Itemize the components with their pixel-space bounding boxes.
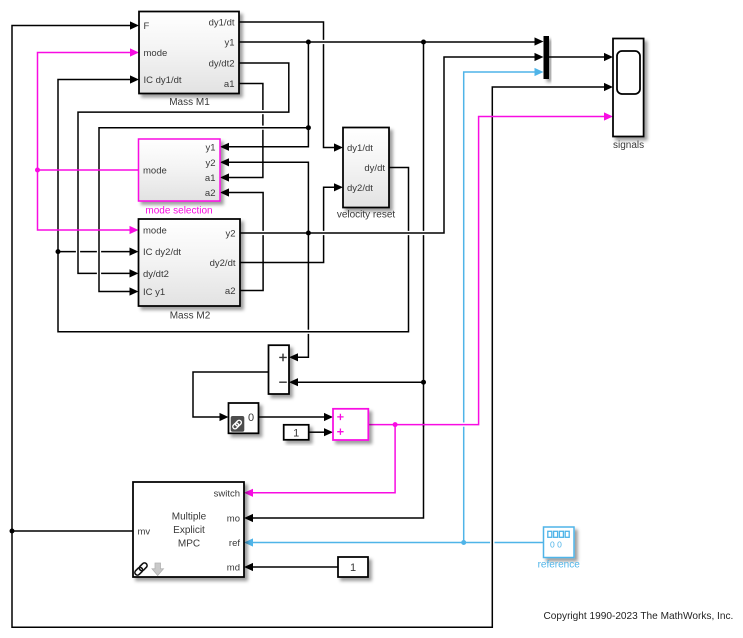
svg-text:mode selection: mode selection bbox=[145, 206, 212, 217]
svg-text:velocity reset: velocity reset bbox=[337, 210, 396, 221]
block Multiple Explicit MPC bbox=[133, 482, 244, 577]
svg-text:MPC: MPC bbox=[178, 539, 200, 550]
svg-text:ref: ref bbox=[229, 538, 240, 549]
arrow into MPC ref bbox=[244, 538, 253, 546]
svg-text:a1: a1 bbox=[224, 79, 235, 90]
svg-text:y2: y2 bbox=[225, 229, 235, 240]
arrow into velocity reset dy2/dt bbox=[334, 183, 343, 191]
wire magenta sum branch down to MPC switch bbox=[253, 425, 396, 493]
wire constant 1 output to MPC md bbox=[253, 566, 339, 568]
junction sum minus bbox=[421, 380, 426, 385]
arrow into M1 mode bbox=[130, 48, 139, 56]
arrow into mode selection a1 bbox=[220, 173, 229, 181]
wire sum minus branch bbox=[298, 381, 424, 383]
svg-text:y1: y1 bbox=[205, 142, 215, 153]
arrow into MPC mo bbox=[244, 514, 253, 522]
svg-text:mode: mode bbox=[144, 48, 168, 59]
arrow into mux in3 bbox=[535, 68, 544, 76]
arrow into scope in2 bbox=[604, 83, 613, 91]
arrow into scope in1 bbox=[604, 53, 613, 61]
wire y2 branch down to sum plus input bbox=[307, 233, 309, 330]
magenta wires bbox=[38, 53, 605, 493]
ARROWHEADS bbox=[130, 21, 614, 571]
source block reference bbox=[538, 527, 581, 571]
wire constant 1 output to magenta sum in2 bbox=[309, 431, 325, 433]
svg-text:mo: mo bbox=[227, 514, 240, 525]
wire y1 branch down right side to MPC mo and sum minus bbox=[423, 42, 425, 231]
wire mux output to scope in1 bbox=[549, 56, 605, 58]
svg-text:dy/dt2: dy/dt2 bbox=[143, 269, 169, 280]
mux bbox=[544, 36, 550, 79]
constant 1 (lower) bbox=[338, 557, 368, 577]
junction y2 bbox=[306, 231, 311, 236]
junction y1 at x423 bbox=[421, 40, 426, 45]
wire a1 of M1 to mode selection a1 input bbox=[239, 84, 263, 111]
arrow into M1 F bbox=[130, 21, 139, 29]
wire y2 of M2 to mux in2 bbox=[240, 57, 535, 233]
junction IC rail bbox=[56, 249, 61, 254]
arrow into velocity reset dy1/dt bbox=[334, 143, 343, 151]
subsystem Mass M2 bbox=[139, 219, 241, 322]
wire y1 of M1 to mux in1 bbox=[239, 41, 535, 43]
svg-text:F: F bbox=[144, 21, 150, 32]
junction y1 IC branch bbox=[306, 125, 311, 130]
wire mode rail down to M2 mode input bbox=[38, 170, 131, 230]
svg-text:dy2/dt: dy2/dt bbox=[210, 258, 236, 269]
wire reference output to MPC ref bbox=[495, 542, 544, 544]
arrow into sum minus bbox=[289, 378, 298, 386]
link block 0 (WrapToZero) bbox=[229, 403, 259, 433]
wire sum output to link block bbox=[193, 372, 269, 417]
arrow into M2 dy/dt2 bbox=[130, 269, 139, 277]
svg-text:dy/dt2: dy/dt2 bbox=[209, 59, 235, 70]
wire magenta sum output to scope in3 bbox=[368, 117, 604, 425]
arrow into sum plus bbox=[289, 353, 298, 361]
wire mv rail down, along bottom, up right side to scope in2 bbox=[12, 87, 605, 627]
wire IC rail branch to M2 IC dy2/dt bbox=[58, 251, 76, 253]
arrow into link block bbox=[220, 413, 229, 421]
wire mode rail up to M1 mode input bbox=[38, 53, 131, 171]
subsystem mode selection bbox=[139, 139, 221, 217]
arrow into M1 IC dy1/dt bbox=[130, 75, 139, 83]
wire dy2/dt of M2 to velocity reset dy2/dt bbox=[240, 235, 324, 262]
wire dy1/dt of M1 to velocity reset dy1/dt bbox=[239, 22, 324, 40]
wire reference branch up to mux in3 bbox=[463, 427, 465, 543]
light blue wires bbox=[253, 72, 544, 543]
arrow into M2 mode bbox=[130, 226, 139, 234]
svg-text:dy2/dt: dy2/dt bbox=[347, 183, 373, 194]
arrow into mux in2 bbox=[535, 53, 544, 61]
svg-text:1: 1 bbox=[293, 427, 299, 439]
subsystem velocity reset bbox=[337, 128, 396, 221]
magenta sum block bbox=[333, 409, 368, 440]
arrow into scope in3 bbox=[604, 112, 613, 120]
chain glyph on badge bbox=[232, 419, 242, 429]
svg-text:Multiple: Multiple bbox=[172, 512, 207, 523]
svg-text:Mass M1: Mass M1 bbox=[169, 97, 210, 108]
arrow into MPC md bbox=[244, 563, 253, 571]
wire mode selection output to mode rail bbox=[38, 169, 139, 171]
constant 1 (upper) bbox=[284, 425, 309, 440]
svg-text:0: 0 bbox=[248, 412, 254, 424]
svg-text:dy/dt: dy/dt bbox=[364, 163, 385, 174]
svg-text:Explicit: Explicit bbox=[173, 525, 205, 536]
wire mv feedback: MPC mv output to left rail bbox=[12, 530, 133, 532]
arrow into magenta sum in2 bbox=[324, 428, 333, 436]
svg-text:IC dy1/dt: IC dy1/dt bbox=[144, 75, 182, 86]
svg-text:reference: reference bbox=[538, 560, 581, 571]
wire dy/dt2 of M1 to M2 dy/dt2 input bbox=[78, 63, 289, 273]
svg-text:signals: signals bbox=[613, 140, 644, 151]
svg-text:mv: mv bbox=[138, 527, 151, 538]
arrow into mux in1 bbox=[535, 37, 544, 45]
sum block (y2 - y1) bbox=[269, 345, 290, 394]
svg-text:y2: y2 bbox=[205, 158, 215, 169]
svg-text:Mass M2: Mass M2 bbox=[170, 311, 211, 322]
svg-text:mode: mode bbox=[143, 226, 167, 237]
subsystem Mass M1 bbox=[139, 12, 239, 108]
arrow into magenta sum in1 bbox=[324, 413, 333, 421]
wire y2 branch up to mode selection y2 input bbox=[229, 162, 309, 233]
junction y1 at x308 bbox=[306, 40, 311, 45]
svg-text:1: 1 bbox=[350, 562, 356, 574]
arrow into MPC switch bbox=[244, 489, 253, 497]
svg-text:a2: a2 bbox=[225, 286, 236, 297]
junction mv rail bbox=[10, 529, 15, 534]
arrow into mode selection y1 bbox=[220, 143, 229, 151]
arrow into M2 IC dy2/dt bbox=[130, 248, 139, 256]
svg-text:a1: a1 bbox=[205, 173, 216, 184]
arrow into mode selection a2 bbox=[220, 188, 229, 196]
scope signals bbox=[613, 39, 644, 152]
wire y1 branch to M2 IC y1 input bbox=[99, 128, 308, 292]
svg-text:y1: y1 bbox=[224, 38, 234, 49]
arrow into mode selection y2 bbox=[220, 158, 229, 166]
arrow into M2 IC y1 bbox=[130, 287, 139, 295]
svg-text:mode: mode bbox=[143, 166, 167, 177]
svg-text:IC y1: IC y1 bbox=[143, 287, 165, 298]
svg-text:dy1/dt: dy1/dt bbox=[209, 18, 235, 29]
svg-text:Copyright 1990-2023 The MathWo: Copyright 1990-2023 The MathWorks, Inc. bbox=[544, 611, 734, 622]
junction magenta sum output bbox=[393, 422, 398, 427]
svg-text:md: md bbox=[227, 563, 240, 574]
svg-text:a2: a2 bbox=[205, 188, 216, 199]
wire mv rail up to F input of Mass M1 bbox=[12, 26, 131, 532]
svg-text:IC dy2/dt: IC dy2/dt bbox=[143, 247, 181, 258]
wire a2 of M2 to mode selection a2 input bbox=[240, 235, 263, 290]
wire link block output to magenta sum in1 bbox=[259, 416, 325, 418]
junction reference (light blue) bbox=[461, 540, 466, 545]
chain icon MPC bbox=[134, 562, 148, 576]
wire velocity reset dy/dt output to IC rail bbox=[389, 168, 409, 231]
svg-text:dy1/dt: dy1/dt bbox=[347, 143, 373, 154]
svg-text:0 0: 0 0 bbox=[550, 540, 562, 550]
svg-text:switch: switch bbox=[214, 488, 240, 499]
gray down arrow icon bbox=[152, 563, 164, 576]
junction mode rail (magenta) bbox=[35, 168, 40, 173]
wire y1 branch down to mode selection y1 input bbox=[229, 42, 309, 147]
